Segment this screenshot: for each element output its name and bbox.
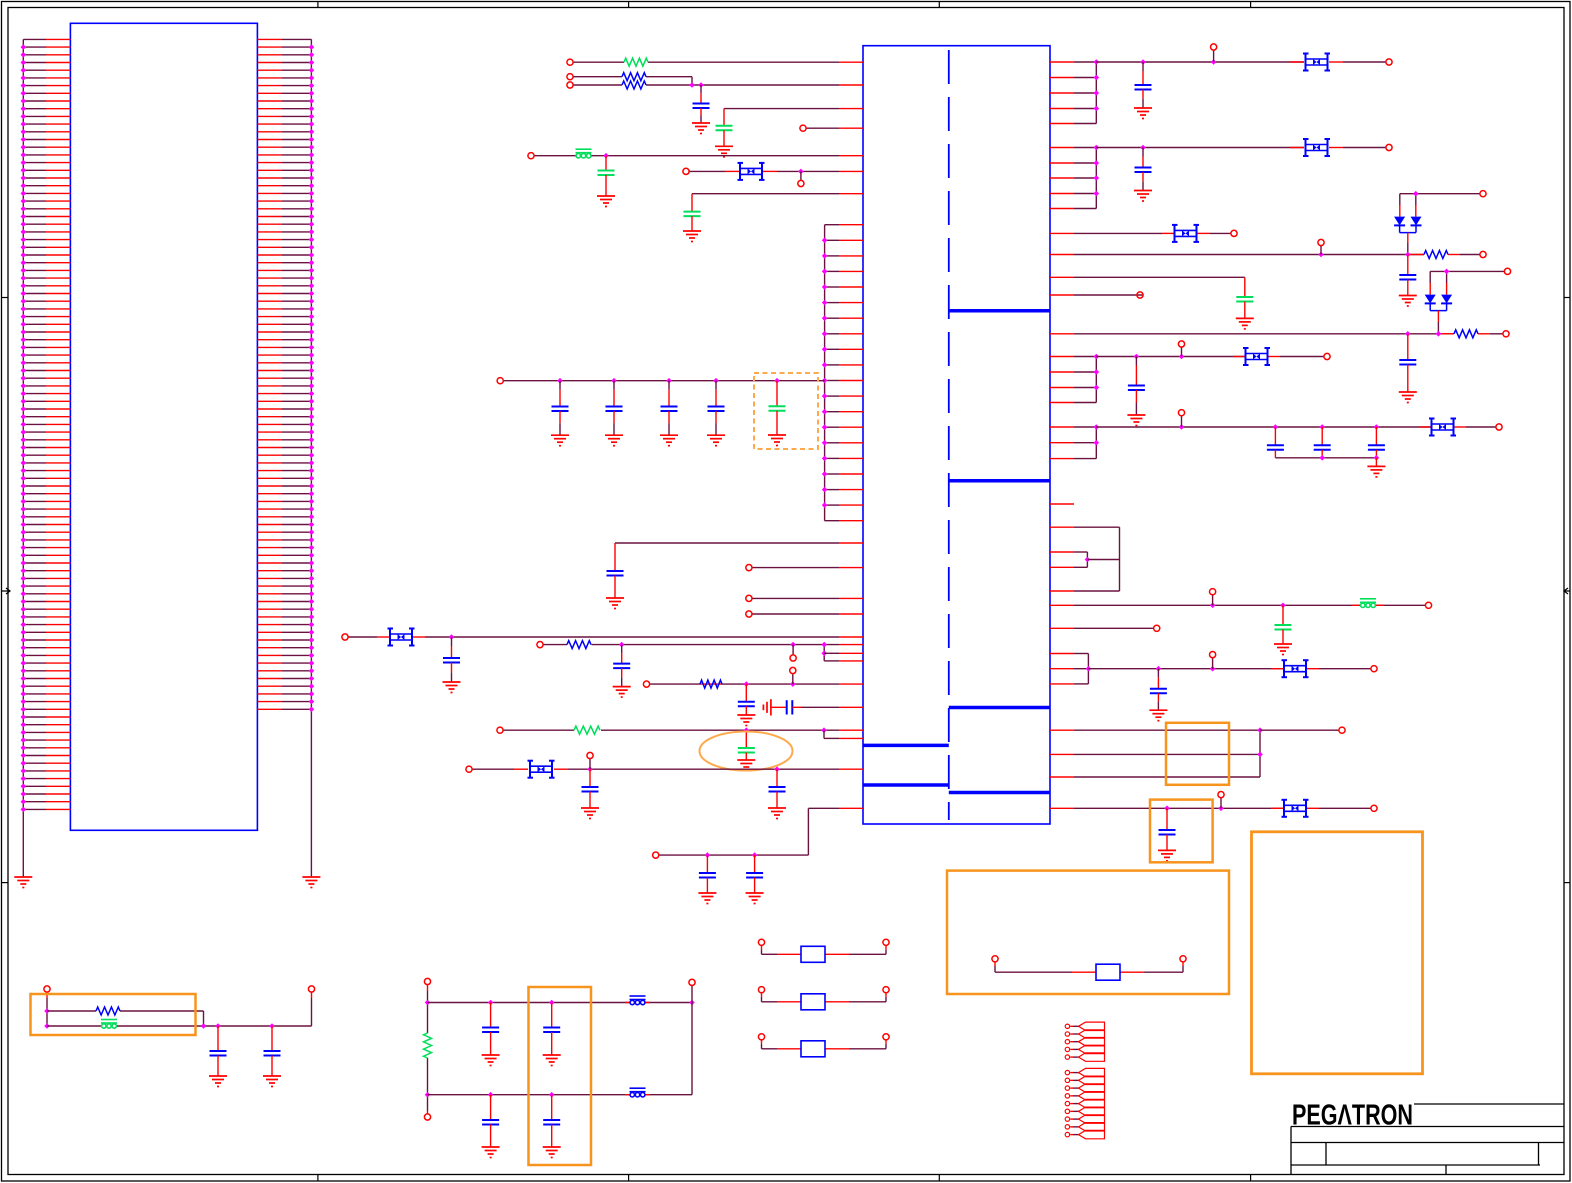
series jumper row 2 right terminal bbox=[883, 987, 889, 993]
dual diode D1 bbox=[1394, 217, 1405, 226]
connector J1 right bus junctions bbox=[309, 44, 315, 712]
orange highlight box bottom-left bbox=[31, 994, 196, 1035]
jumper net inside orange box bbox=[992, 956, 998, 962]
junction row730 x824 branch to pin y738.4 bbox=[821, 727, 827, 733]
ferrite bead FB-y1094 (blue) bbox=[630, 1088, 646, 1097]
junction y380 x777 bbox=[774, 378, 780, 384]
net wire row y427 right bbox=[1096, 426, 1431, 428]
no-connect terminal row614 bbox=[746, 611, 752, 617]
vertical wire x692 bbox=[691, 1003, 693, 1095]
IC U1 section separator right y792 bbox=[949, 791, 1050, 795]
ferrite bead FB-y1002 (blue) bbox=[630, 996, 646, 1005]
EMI filter FL-y668 bbox=[1282, 660, 1309, 677]
orange highlight box tall x528-591 bbox=[529, 987, 592, 1165]
ground at connector right bus bbox=[302, 877, 320, 888]
no-connect terminal row730 bbox=[497, 727, 503, 733]
IC U1 left pin bundle junctions bbox=[822, 238, 828, 508]
net wire row y62 right bbox=[1096, 61, 1304, 63]
net wire y1026 with ferrite bbox=[47, 1025, 312, 1027]
net wire row y543 left of IC bbox=[615, 542, 839, 544]
capacitor C-x606 (green) to ground bbox=[605, 156, 607, 171]
net wire row y155.7 left of IC bbox=[534, 155, 839, 157]
junction x427 y1002.5 bbox=[425, 1000, 431, 1006]
svg-text:PEGΛTRON: PEGΛTRON bbox=[1292, 1100, 1413, 1132]
net wire row y254.5 right bbox=[1050, 254, 1074, 256]
capacitor C-x1322 bbox=[1321, 427, 1323, 445]
no-connect terminal row684 bbox=[643, 681, 649, 687]
junction row85 at x701 bbox=[698, 82, 704, 88]
no-connect terminal row380 bbox=[497, 378, 503, 384]
capacitor C-x777 (green) to ground bbox=[776, 381, 778, 407]
net wire row y147.5 right bbox=[1096, 147, 1304, 149]
net wire row y356.5 right bbox=[1096, 356, 1245, 358]
no-connect terminal row128 bbox=[800, 125, 806, 131]
large orange highlight box x1251-1422 bbox=[1252, 832, 1423, 1074]
off-page connector tag group 2 (9 tags) bbox=[1065, 1068, 1104, 1138]
border zone ticks top bbox=[318, 2, 1251, 8]
capacitor C-x1407b to ground bbox=[1407, 334, 1409, 360]
net wire row y233.4 right bbox=[1050, 232, 1074, 234]
no-connect terminal x311.5 bbox=[308, 986, 314, 992]
junction y1094 x490.6 bbox=[488, 1092, 494, 1098]
no-connect terminal row637 bbox=[342, 634, 348, 640]
junction row769 x777 bbox=[774, 766, 780, 772]
net wire row y730.2 left of IC bbox=[503, 729, 574, 731]
no-connect terminal y62 right bbox=[1386, 59, 1392, 65]
junction A15 bbox=[1086, 666, 1092, 672]
capacitor C-x272 to ground bbox=[271, 1026, 273, 1051]
junction y356 x1181.5 with no-connect stub above bbox=[1179, 354, 1185, 360]
no-connect stub below row171 bbox=[800, 171, 802, 180]
junction y1026 x272 bbox=[269, 1023, 275, 1029]
resistor R-y254 (blue) bbox=[1424, 251, 1448, 259]
series jumper row 3 wires bbox=[762, 1048, 778, 1050]
IC right bare pin y504 bbox=[1050, 503, 1074, 505]
series jumper row 3 component box bbox=[801, 1041, 825, 1057]
IC right pin group A10 bus bbox=[1050, 427, 1096, 459]
junction diode1 top bbox=[1413, 191, 1419, 197]
no-connect terminal y668 right bbox=[1371, 666, 1377, 672]
ferrite bead FB-y605 (green) bbox=[1360, 599, 1376, 608]
junction y1002 x490.6 bbox=[488, 1000, 494, 1006]
capacitor C-x615 to ground bbox=[614, 543, 616, 571]
no-connect terminal y254 right bbox=[1480, 251, 1486, 257]
junction y1026 x218 bbox=[215, 1023, 221, 1029]
IC U1 section separator right y311 bbox=[949, 309, 1050, 313]
junction row855 x707.4 bbox=[705, 852, 711, 858]
connector J1 left bus junctions bbox=[21, 44, 27, 812]
junction y1002 x692 with no-connect stub above bbox=[689, 1000, 695, 1006]
EMI filter FL-y427 bbox=[1429, 419, 1456, 436]
IC right pin group A2 bus bbox=[1050, 148, 1096, 209]
capacitor C-x1167 to ground bbox=[1166, 808, 1168, 830]
ferrite bead FB-y1026 (green) bbox=[101, 1020, 117, 1029]
series jumper row 2 wires bbox=[762, 1001, 778, 1003]
junction y605 x1212.6 with no-connect stub above bbox=[1210, 603, 1216, 609]
net wire row y644.6 bbox=[543, 644, 567, 646]
capacitor C-x746 to ground bbox=[745, 684, 747, 702]
IC right pin group A9 bus bbox=[1050, 357, 1096, 403]
series jumper row 2 left terminal bbox=[758, 987, 764, 993]
capacitor C-x1143 to ground bbox=[1142, 62, 1144, 71]
junction y62 x1143 bbox=[1140, 59, 1146, 65]
net wire row y193.7 diode top net bbox=[1400, 193, 1480, 195]
capacitor C-x1136 to ground bbox=[1135, 357, 1137, 366]
capacitor C-x1407 to ground bbox=[1407, 255, 1409, 276]
no-connect terminal row769 bbox=[466, 766, 472, 772]
dual diode D2 bbox=[1425, 295, 1436, 304]
net wire row y628.3 right bbox=[1050, 627, 1074, 629]
junction y333 x1407.8 bbox=[1405, 331, 1411, 337]
connector J1 right vertical bus wire bbox=[310, 39, 312, 877]
net wire row y614 bbox=[752, 613, 839, 615]
no-connect terminal bottom-left x47 bbox=[44, 986, 50, 992]
capacitor C-x1283 (green) to ground bbox=[1282, 605, 1284, 625]
orange highlight box x947-1229 bbox=[947, 871, 1229, 994]
junction x427 y1094.7 bbox=[425, 1092, 431, 1098]
ground at connector left bus bbox=[14, 877, 32, 888]
series jumper row 1 left terminal bbox=[758, 939, 764, 945]
no-connect terminal y333 right bbox=[1503, 331, 1509, 337]
capacitor C-x669 to ground bbox=[668, 381, 670, 390]
pin bracket net y552-y567 bbox=[1050, 551, 1074, 553]
junction y356 x1136.4 bbox=[1134, 354, 1140, 360]
no-connect terminal row567 bbox=[746, 565, 752, 571]
connector J1 left vertical bus wire bbox=[22, 39, 24, 877]
net wire row y128 left of IC bbox=[806, 127, 839, 129]
IC U1 section separator left y785 bbox=[863, 783, 949, 787]
junction y1094 x551.7 bbox=[549, 1092, 555, 1098]
capacitor C-x746b (green) to ground bbox=[745, 730, 747, 748]
capacitor C-x777b to ground bbox=[776, 769, 778, 787]
net wire y1002.5 bbox=[428, 1002, 693, 1004]
connector J1 right pin rows (red pin stubs + net wires) bbox=[257, 39, 311, 709]
junction y754 x1260 bbox=[1257, 752, 1263, 758]
EMI filter FL-row171 bbox=[738, 163, 765, 180]
capacitor C-x621 to ground bbox=[621, 645, 623, 654]
resistor R-row730 (green) bbox=[574, 726, 600, 734]
resistor R-row62 (green) bbox=[624, 58, 648, 66]
junction y380 x716 bbox=[713, 378, 719, 384]
net wire row y62 left of IC bbox=[573, 61, 624, 63]
no-connect terminal y628 bbox=[1154, 625, 1160, 631]
capacitor C-x692 (green) to ground bbox=[691, 194, 693, 212]
junction y62 x1213.6 with no-connect stub above bbox=[1211, 59, 1217, 65]
junctions A10 bus bbox=[1094, 424, 1100, 430]
capacitor C-x1376 bbox=[1375, 427, 1377, 445]
IC right pin group A1 bus bbox=[1050, 62, 1096, 124]
no-connect terminal y233 bbox=[1231, 230, 1237, 236]
EMI filter FL-row769 bbox=[528, 761, 555, 778]
net wire row y171.4 left of IC bbox=[689, 170, 725, 172]
connector J1 left pin rows (red pin stubs + net wires) bbox=[23, 39, 70, 809]
IC U1 section separator right y481 bbox=[949, 479, 1050, 483]
no-connect terminal y808 right bbox=[1371, 805, 1377, 811]
resistor R-row77 (blue) bbox=[622, 73, 646, 81]
no-connect terminal row77 bbox=[567, 74, 573, 80]
no-connect terminal y193 right bbox=[1480, 191, 1486, 197]
net wire y1011 with resistor bbox=[47, 1010, 96, 1012]
resistor R-row644 (blue) bbox=[567, 641, 591, 649]
no-connect terminal y295 bbox=[1137, 292, 1143, 298]
series jumper row 3 left terminal bbox=[758, 1034, 764, 1040]
junction y1002 x551.7 bbox=[549, 1000, 555, 1006]
net wire row y769.2 left of IC bbox=[472, 768, 514, 770]
IC U1 internal dashed divider bbox=[948, 50, 950, 820]
capacitor C-x701 to ground bbox=[700, 85, 702, 93]
no-connect terminal x427.5 top bbox=[424, 978, 430, 984]
net wire row y567.6 bbox=[752, 567, 839, 569]
junctions A2 bus bbox=[1094, 145, 1100, 151]
net wire row y271.4 diode2 top net bbox=[1430, 270, 1504, 272]
net wire row y605.3 right bbox=[1050, 604, 1074, 606]
net wire row y77 left of IC bbox=[573, 76, 622, 78]
capacitor C-x490 to ground bbox=[490, 1003, 492, 1028]
IC U1 section separator right y707 bbox=[949, 706, 1050, 710]
capacitor C-x551 to ground bbox=[551, 1003, 553, 1028]
decoupling net wire y380.7 bbox=[503, 380, 825, 382]
capacitor C-x724 (green) to ground bbox=[723, 109, 725, 126]
junction y380 x560 bbox=[557, 378, 563, 384]
net wire row y295 right bbox=[1050, 294, 1074, 296]
cap-bottom bus wire y457.8 bbox=[1275, 457, 1376, 459]
border zone ticks right bbox=[1564, 298, 1570, 883]
ground at x1376 y466 bbox=[1375, 458, 1377, 467]
capacitor C-x451 to ground bbox=[451, 637, 453, 646]
junction row85 at x692 bbox=[689, 82, 695, 88]
net wire row y333.8 right bbox=[1050, 333, 1074, 335]
net wire row y108.6 left of IC bbox=[724, 108, 839, 110]
junction diode2 top bbox=[1444, 269, 1450, 275]
junction y427 x1275.4 bbox=[1273, 424, 1279, 430]
orange highlight box A16 bbox=[1166, 723, 1229, 785]
capacitor C-x551b to ground bbox=[551, 1095, 553, 1120]
junction y147 x1143 bbox=[1140, 145, 1146, 151]
orange highlight box around C-x1167 bbox=[1150, 800, 1213, 863]
capacitor C-x1275 bbox=[1274, 427, 1276, 445]
series jumper row 1 component box bbox=[801, 946, 825, 962]
no-connect terminal row598 bbox=[746, 595, 752, 601]
net wire y1094.7 bbox=[428, 1094, 693, 1096]
border zone ticks bottom bbox=[318, 1175, 1251, 1182]
net wire y730 to no-connect bbox=[1260, 729, 1339, 731]
bus corner row644 to pins y653 y661 bbox=[823, 645, 825, 661]
net wire row y598.4 bbox=[752, 597, 839, 599]
junction y427 x1322.2 bbox=[1319, 424, 1325, 430]
junction y254 x1321 with no-connect stub above bbox=[1318, 252, 1324, 258]
series jumper row 3 right terminal bbox=[883, 1034, 889, 1040]
junction y808 x1167 bbox=[1164, 806, 1170, 812]
junction y668 x1212.6 with no-connect stub above bbox=[1210, 666, 1216, 672]
diode D1 lead down bbox=[1407, 233, 1409, 243]
no-connect terminal x427.5 bottom bbox=[424, 1114, 430, 1120]
capacitor C-x590 to ground bbox=[589, 769, 591, 787]
resistor R-row85 (blue) bbox=[622, 81, 646, 89]
junction row644 x621.7 bbox=[619, 642, 625, 648]
junction x47 y1026 bbox=[44, 1023, 50, 1029]
diode D2 lead down bbox=[1437, 311, 1439, 322]
capacitor C-x560 to ground bbox=[559, 381, 561, 390]
capacitor C-x614 to ground bbox=[613, 381, 615, 390]
capacitor C-x716 to ground bbox=[715, 381, 717, 390]
no-connect terminal y356 right bbox=[1324, 353, 1330, 359]
junction y380 x614 bbox=[611, 378, 617, 384]
resistor R-row684 (blue) bbox=[700, 680, 722, 688]
junction row684 x746.3 bbox=[744, 681, 750, 687]
no-connect terminal y271 right bbox=[1504, 268, 1510, 274]
capacitor C-x754 to ground bbox=[754, 855, 756, 873]
vertical feed wire x47 bbox=[46, 992, 48, 998]
net wire row y668.7 right bbox=[1088, 668, 1283, 670]
junction row684 x792.8 with no-connect stub bbox=[790, 681, 796, 687]
no-connect terminal row171 bbox=[683, 168, 689, 174]
EMI filter FL-row637 bbox=[388, 629, 415, 646]
junction y427 x1376.4 bbox=[1374, 424, 1380, 430]
IC U1 left pin bundle wires (20 rows) with bus x824.6 bbox=[825, 225, 863, 521]
no-connect terminal row85 bbox=[567, 82, 573, 88]
junction bracket y559.5 bbox=[1085, 557, 1091, 563]
pin tie net y730-y776 bbox=[1050, 729, 1074, 731]
IC U1 body bbox=[863, 46, 1050, 824]
orange dashed highlight box around C-x777 bbox=[754, 373, 818, 449]
net wire row y637 left of IC bbox=[348, 636, 377, 638]
no-connect terminal y605 right bbox=[1425, 602, 1431, 608]
junction y808 x1221 with no-connect stub above bbox=[1218, 806, 1224, 812]
EMI filter FL-y808 bbox=[1282, 800, 1309, 817]
capacitor C-x490b to ground bbox=[490, 1095, 492, 1120]
junction row637 x451.5 bbox=[449, 634, 455, 640]
series jumper row 1 right terminal bbox=[883, 939, 889, 945]
junction y1026 x203.5 bbox=[201, 1023, 207, 1029]
no-connect terminal row644 bbox=[537, 642, 543, 648]
vertical feed wire x427.5 bbox=[427, 985, 429, 992]
junctions A9 bus bbox=[1094, 354, 1100, 360]
junction y605 x1283 bbox=[1280, 603, 1286, 609]
junction row171 at x800.9 bbox=[798, 169, 804, 175]
pin bracket A15 y653-y684 bbox=[1050, 653, 1074, 655]
junction y254 x1407.8 bbox=[1405, 252, 1411, 258]
junction y333 x1438.4 bbox=[1436, 331, 1442, 337]
series jumper row 1 wires bbox=[762, 953, 778, 955]
capacitor C-x707 to ground bbox=[706, 855, 708, 873]
junction row730 x746.3 bbox=[744, 727, 750, 733]
capacitor C-x1244 (green) to ground bbox=[1244, 277, 1246, 297]
pin loop net y527-y591 bbox=[1050, 526, 1074, 528]
junction y668 x1158.4 bbox=[1156, 666, 1162, 672]
net wire row y855 below IC bbox=[659, 854, 808, 856]
net wire row y193.7 left of IC bbox=[692, 193, 839, 195]
orange ellipse highlight bbox=[700, 732, 793, 771]
IC U1 section separator left y745 bbox=[863, 744, 949, 748]
net wire row y684.1 (crystal net) bbox=[650, 683, 701, 685]
EMI filter FL-y233 bbox=[1172, 225, 1199, 242]
net wire row y277.3 right bbox=[1050, 276, 1074, 278]
no-connect terminal y147 right bbox=[1386, 144, 1392, 150]
jumper box J-x1096 bbox=[1096, 964, 1120, 980]
no-connect terminal row855 bbox=[653, 852, 659, 858]
title block lines bbox=[1291, 1104, 1564, 1175]
junction row155 at x606 bbox=[603, 153, 609, 159]
junctions A1 bus bbox=[1094, 59, 1100, 65]
junction row855 x754.6 bbox=[752, 852, 758, 858]
border zone ticks left bbox=[2, 298, 11, 883]
series capacitor (vertical plates) row y707 bbox=[771, 706, 787, 708]
EMI filter FL-y356 bbox=[1243, 348, 1270, 365]
junction y427 x1181.5 with no-connect stub above bbox=[1179, 424, 1185, 430]
no-connect terminal y427 right bbox=[1496, 424, 1502, 430]
capacitor C-x1143b to ground bbox=[1142, 148, 1144, 157]
junction y380 x669 bbox=[666, 378, 672, 384]
resistor R-x427 vertical (green) bbox=[424, 1033, 432, 1058]
ferrite bead FB-row155 (green) bbox=[576, 149, 592, 158]
junction row644 x793.1 with no-connect stub bbox=[790, 642, 796, 648]
no-connect terminal row155 bbox=[528, 153, 534, 159]
junction row769 x590 with no-connect stub above bbox=[587, 766, 593, 772]
no-connect terminal y730 right bbox=[1339, 727, 1345, 733]
junction x47 y1011 bbox=[44, 1008, 50, 1014]
EMI filter FL-y62 bbox=[1303, 54, 1330, 71]
junction y730 x1260 bbox=[1257, 727, 1263, 733]
capacitor C-x1158 to ground bbox=[1157, 669, 1159, 678]
resistor R-y333 (blue) bbox=[1454, 330, 1478, 338]
EMI filter FL-y147 bbox=[1303, 139, 1330, 156]
no-connect terminal row62 bbox=[567, 59, 573, 65]
RF ground symbol rotated (crystal row y707) bbox=[763, 699, 771, 715]
resistor R-y1011 (blue) bbox=[96, 1007, 120, 1015]
series jumper row 2 component box bbox=[801, 994, 825, 1010]
off-page connector tag group 1 (5 tags) bbox=[1065, 1022, 1104, 1061]
connector J1 body bbox=[70, 23, 257, 830]
net wire row y808.3 right bbox=[1050, 807, 1074, 809]
capacitor C-x218 to ground bbox=[217, 1026, 219, 1051]
net wire row y85 left of IC bbox=[573, 84, 622, 86]
